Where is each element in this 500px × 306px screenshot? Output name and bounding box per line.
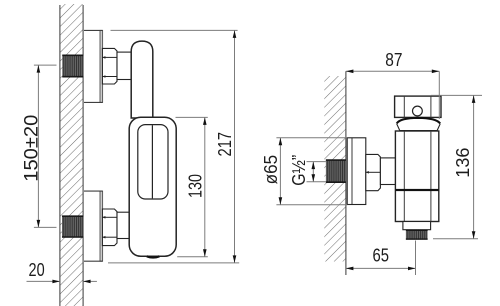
dim G half inch: [289, 155, 326, 186]
wall bracket top: [84, 30, 103, 102]
cap inner lines: [403, 96, 405, 117]
hex nut top: [102, 48, 117, 84]
outlet thread: [406, 230, 428, 240]
adapter side: [380, 158, 395, 185]
dim 217: [108, 30, 239, 263]
handle column: [131, 41, 153, 118]
cap top side: [395, 96, 441, 117]
body inner lines: [403, 131, 405, 222]
hex nut bottom: [102, 209, 117, 246]
svg-text:G½”: G½”: [289, 155, 309, 186]
dim 130: [176, 117, 208, 256]
body side view: [395, 131, 438, 222]
threaded nipple top: [62, 55, 83, 78]
dim 87: [346, 50, 439, 119]
svg-text:65: 65: [373, 246, 390, 266]
adapter top: [117, 52, 131, 79]
flange escutcheon: [347, 138, 366, 205]
dim 65: [346, 241, 416, 276]
svg-text:217: 217: [215, 132, 235, 157]
body seam: [396, 189, 439, 191]
union nut side: [366, 154, 381, 190]
wall left view: [60, 4, 83, 306]
svg-text:ø65: ø65: [261, 155, 281, 185]
wall bracket bottom: [84, 191, 103, 261]
threaded nipple bottom: [62, 216, 83, 238]
dim 150+-20: [20, 65, 56, 227]
body front view: [129, 117, 176, 256]
wall side view: [324, 71, 346, 275]
svg-text:136: 136: [453, 148, 473, 178]
inner opening: [138, 125, 168, 199]
button circle: [413, 106, 423, 116]
G half thread tail: [326, 160, 346, 183]
svg-text:20: 20: [29, 260, 45, 280]
outlet collar: [403, 222, 431, 230]
column edge through opening: [151, 125, 153, 198]
dim 20: [27, 260, 97, 283]
adapter bottom: [117, 212, 131, 238]
dim 136: [431, 95, 482, 238]
svg-text:150±20: 150±20: [20, 115, 42, 182]
lever flare: [397, 118, 441, 131]
outlet under body: [147, 256, 160, 257]
svg-text:130: 130: [185, 174, 205, 198]
svg-text:87: 87: [385, 50, 402, 70]
dim dia65: [261, 138, 347, 205]
